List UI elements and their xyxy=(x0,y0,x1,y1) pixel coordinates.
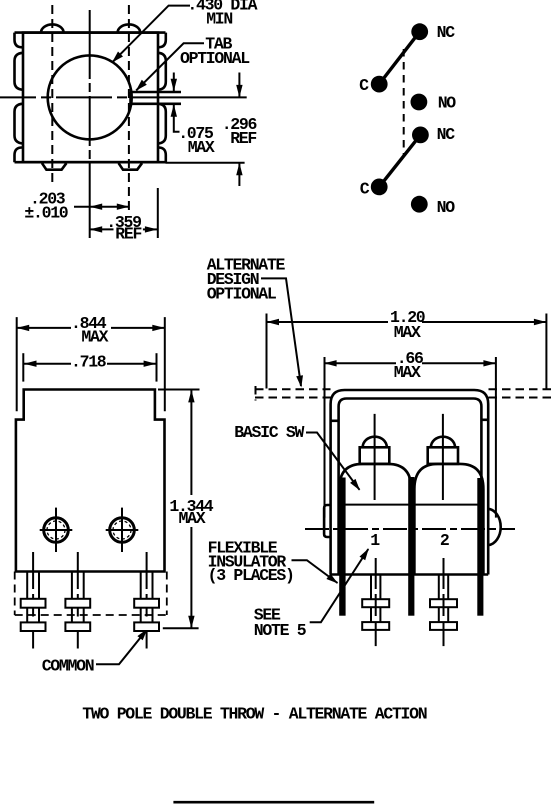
svg-text:C: C xyxy=(359,76,369,95)
svg-text:MAX: MAX xyxy=(394,363,421,382)
svg-text:2: 2 xyxy=(440,531,449,550)
svg-text:COMMON: COMMON xyxy=(42,656,94,675)
svg-text:NO: NO xyxy=(437,198,456,217)
svg-text:OPTIONAL: OPTIONAL xyxy=(180,49,250,68)
svg-text:NC: NC xyxy=(437,23,456,42)
svg-text:MAX: MAX xyxy=(179,509,206,528)
svg-text:.718: .718 xyxy=(71,353,107,372)
svg-text:MIN: MIN xyxy=(206,9,232,28)
svg-text:C: C xyxy=(360,179,370,198)
svg-text:NC: NC xyxy=(437,125,456,144)
svg-text:±.010: ±.010 xyxy=(24,203,67,222)
svg-text:OPTIONAL: OPTIONAL xyxy=(207,285,277,304)
svg-text:REF: REF xyxy=(115,225,141,244)
svg-text:(3 PLACES): (3 PLACES) xyxy=(208,566,294,585)
svg-text:TWO POLE DOUBLE THROW - ALTERN: TWO POLE DOUBLE THROW - ALTERNATE ACTION xyxy=(82,704,426,723)
svg-text:MAX: MAX xyxy=(394,323,421,342)
svg-text:MAX: MAX xyxy=(188,138,215,157)
svg-text:1: 1 xyxy=(370,531,380,550)
svg-text:MAX: MAX xyxy=(81,328,108,347)
svg-text:REF: REF xyxy=(230,129,256,148)
svg-text:NO: NO xyxy=(438,94,457,113)
svg-text:NOTE 5: NOTE 5 xyxy=(254,621,307,640)
svg-text:BASIC SW: BASIC SW xyxy=(234,423,304,442)
